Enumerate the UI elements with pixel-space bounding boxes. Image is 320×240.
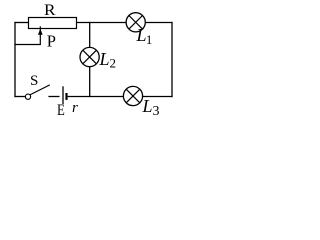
svg-text:L: L bbox=[99, 49, 110, 69]
resistor R (rheostat slide body) bbox=[29, 18, 77, 29]
wire left-side vertical bbox=[14, 22, 16, 97]
svg-text:R: R bbox=[44, 2, 56, 19]
wire wiper-to-left-border bbox=[14, 44, 40, 46]
wire L3-to-right-border bbox=[143, 96, 173, 98]
wire top right (L1 to corner) bbox=[145, 22, 172, 24]
wire middle branch upper (node A to L2) bbox=[89, 22, 91, 48]
wiper arrow P (rheostat sliding contact) bbox=[39, 26, 41, 45]
svg-text:L: L bbox=[136, 25, 147, 45]
svg-text:r: r bbox=[72, 100, 78, 116]
battery E negative (short thick) plate bbox=[65, 93, 67, 100]
svg-text:3: 3 bbox=[153, 104, 160, 119]
battery E positive (long) plate bbox=[62, 86, 64, 104]
svg-text:E: E bbox=[57, 102, 65, 119]
switch S blade bbox=[30, 85, 50, 95]
switch S pivot terminal bbox=[25, 94, 30, 99]
lamp L2 bbox=[80, 47, 99, 66]
svg-text:2: 2 bbox=[110, 55, 117, 70]
wire switch-to-battery bbox=[48, 96, 59, 98]
svg-text:S: S bbox=[30, 73, 38, 89]
wire battery-to-L3 (through node B) bbox=[68, 96, 124, 98]
wire right-side vertical bbox=[171, 22, 173, 97]
svg-text:L: L bbox=[142, 96, 153, 116]
lamp L3 bbox=[123, 86, 142, 105]
wire top middle (resistor to node A) bbox=[77, 22, 127, 24]
lamp L1 bbox=[126, 13, 145, 32]
svg-text:P: P bbox=[47, 31, 56, 50]
wire top-left to resistor bbox=[14, 22, 29, 24]
svg-text:1: 1 bbox=[146, 33, 152, 47]
wire middle branch lower (L2 to node B) bbox=[89, 66, 91, 97]
wire bottom-left to switch bbox=[14, 96, 25, 98]
